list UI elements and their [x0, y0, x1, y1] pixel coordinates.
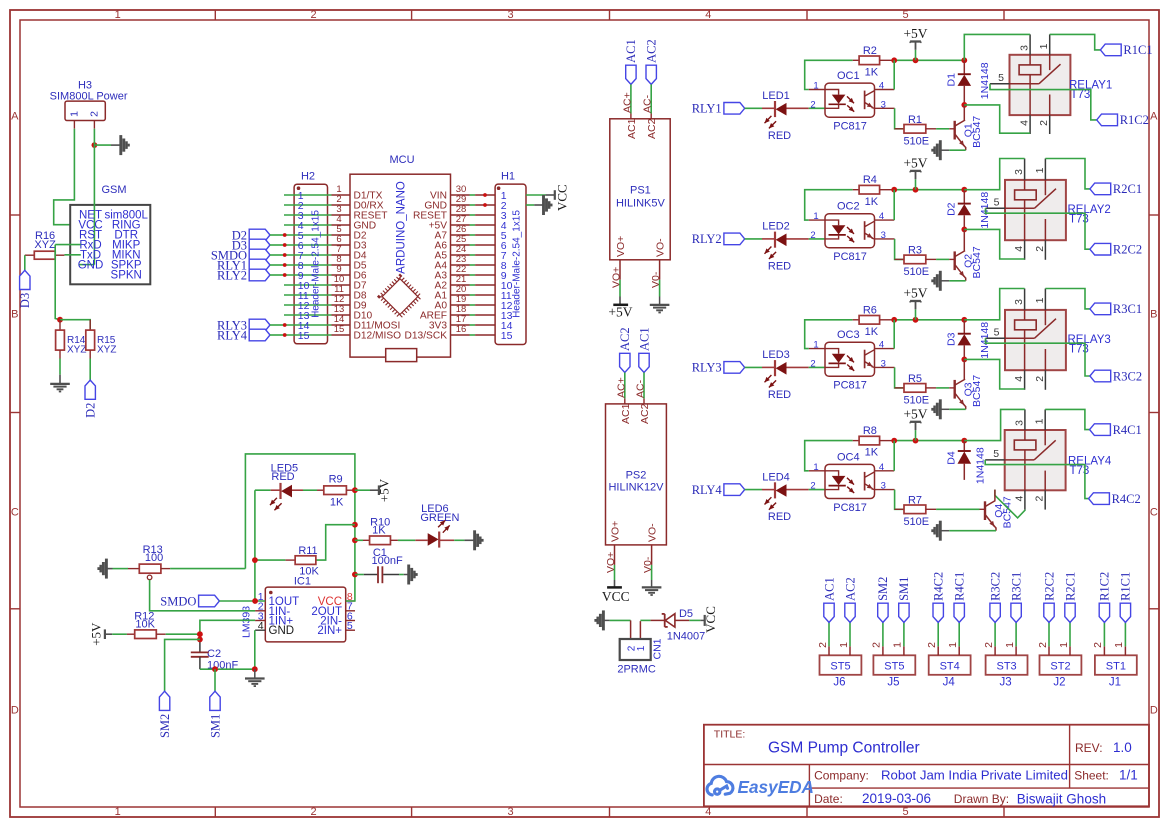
- svg-text:R4C2: R4C2: [1112, 492, 1141, 506]
- svg-text:R6: R6: [863, 304, 877, 316]
- svg-text:ST5: ST5: [830, 660, 850, 672]
- svg-text:3: 3: [1013, 299, 1025, 305]
- svg-text:A: A: [11, 111, 19, 123]
- H1 pin 2: [475, 204, 495, 206]
- net flag R2C2: [1044, 603, 1054, 622]
- J5 pin 2: [882, 646, 884, 655]
- junction IC1 GND: [252, 666, 258, 672]
- svg-text:Drawn By:: Drawn By:: [954, 792, 1009, 806]
- wire MCU to H1 row 9: [470, 274, 476, 276]
- svg-text:OC4: OC4: [837, 451, 860, 463]
- wire R1 to Q1 base: [936, 128, 949, 130]
- svg-text:R3C2: R3C2: [1113, 369, 1142, 383]
- wire H2 row 13 to MCU: [284, 314, 332, 316]
- svg-text:Sheet:: Sheet:: [1074, 768, 1109, 782]
- H3 pin 2: [93, 121, 95, 129]
- capacitor C1: [355, 574, 364, 576]
- MCU pin 28 RESET: [451, 214, 470, 216]
- svg-text:SM2: SM2: [876, 577, 890, 601]
- svg-text:R7: R7: [908, 495, 922, 507]
- wire relay pin1 to flag: [1045, 409, 1089, 429]
- wire H2 row 4 to MCU: [284, 224, 332, 226]
- H1 pin 1: [475, 194, 495, 196]
- svg-text:PC817: PC817: [833, 121, 867, 133]
- svg-text:1/1: 1/1: [1119, 767, 1138, 782]
- relay internal switch: [1005, 207, 1034, 209]
- wire J3 pin 1: [1015, 622, 1017, 646]
- MCU pin 23 A4: [451, 264, 470, 266]
- MCU pin 10 D7: [332, 284, 351, 286]
- OC internal LED: [825, 471, 839, 476]
- svg-text:RLY4: RLY4: [692, 483, 723, 497]
- svg-text:PC817: PC817: [833, 502, 867, 514]
- ground at Q2 emitter: [939, 271, 942, 291]
- PS2 pin stubs top: [624, 399, 626, 404]
- svg-text:2IN+: 2IN+: [317, 625, 342, 637]
- wire IC1 GND down: [254, 630, 256, 669]
- wire MCU to H1 row 1: [470, 194, 476, 196]
- svg-text:OC2: OC2: [837, 201, 860, 213]
- svg-text:AC-: AC-: [642, 94, 654, 113]
- svg-text:T73: T73: [1070, 465, 1090, 477]
- junction diode D2: [961, 187, 967, 193]
- H1 pin 6: [475, 244, 495, 246]
- header H3: [65, 101, 105, 120]
- wire to relay pin4: [964, 229, 1024, 259]
- MCU pin 29 GND: [451, 204, 470, 206]
- relay pin 4: [1024, 490, 1026, 509]
- svg-text:RED: RED: [768, 511, 791, 523]
- wire J4 pin 2: [937, 622, 939, 646]
- title block row dividers: [704, 764, 1149, 766]
- wire OC pin1 up to resistor R4: [805, 190, 853, 220]
- net flag SMDO at H2 pin 7: [249, 249, 270, 261]
- junction R14 top: [57, 317, 63, 323]
- LED5: [255, 489, 271, 491]
- top wire from R13 over to vertical rail: [245, 454, 355, 601]
- ground left of R13: [105, 559, 108, 579]
- wire rail to relay pin3: [964, 34, 1030, 60]
- wire J5 pin 1: [903, 622, 905, 646]
- wire H1 pin1 to VCC: [526, 194, 546, 196]
- relay RELAY2 box: [1005, 180, 1066, 240]
- svg-text:V0-: V0-: [642, 556, 654, 573]
- OC internal LED: [825, 349, 839, 354]
- net flag RLY3: [724, 362, 745, 374]
- OC pin 3 stub: [875, 489, 895, 491]
- MCU pin 14 D11/MOSI: [332, 324, 351, 326]
- svg-text:REV:: REV:: [1075, 741, 1103, 755]
- svg-text:VCC: VCC: [703, 606, 718, 633]
- wire 1IN+ branch: [200, 620, 255, 639]
- svg-text:OC3: OC3: [837, 329, 860, 341]
- wire J2 pin 1: [1069, 622, 1071, 646]
- relay internal coil lines: [1029, 55, 1031, 65]
- wire MCU to H1 row 8: [470, 264, 476, 266]
- MCU pin 18 AREF: [451, 314, 470, 316]
- svg-text:J5: J5: [887, 676, 899, 688]
- svg-text:AC2: AC2: [639, 403, 651, 424]
- svg-text:R3: R3: [908, 245, 922, 257]
- svg-text:1: 1: [115, 806, 121, 818]
- svg-text:H1: H1: [501, 171, 515, 183]
- MCU chip glyph: [380, 277, 420, 317]
- H1 pin 11: [475, 294, 495, 296]
- wire rail down to OC pin4: [893, 320, 895, 349]
- svg-text:R1C1: R1C1: [1119, 572, 1133, 601]
- svg-text:C: C: [11, 507, 19, 519]
- svg-text:PS1: PS1: [630, 185, 651, 197]
- +5V power symbol channel 2: [915, 179, 917, 190]
- net flag R4C2: [933, 603, 943, 622]
- junction diode D3: [961, 317, 967, 323]
- wire H2 row 7 to MCU: [284, 254, 332, 256]
- H1 pin 5: [475, 234, 495, 236]
- svg-text:R1C2: R1C2: [1120, 113, 1149, 127]
- svg-text:1: 1: [1038, 43, 1050, 49]
- svg-text:B: B: [11, 309, 18, 321]
- svg-text:R2C1: R2C1: [1063, 572, 1077, 601]
- resistor R4 1K: [853, 189, 859, 191]
- wire OC pin3 down to resistor R1: [895, 108, 904, 129]
- svg-text:4: 4: [1013, 246, 1025, 252]
- J3 pin 1: [1015, 646, 1017, 655]
- +5V power symbol channel 1: [915, 50, 917, 61]
- svg-text:LED3: LED3: [762, 349, 790, 361]
- svg-text:RED: RED: [768, 260, 791, 272]
- svg-text:+5V: +5V: [376, 478, 391, 502]
- svg-text:ST3: ST3: [997, 660, 1017, 672]
- resistor R7 510E: [895, 508, 904, 510]
- wire relay pin5 to flag: [986, 338, 1090, 376]
- svg-text:J2: J2: [1053, 676, 1065, 688]
- svg-text:510E: 510E: [903, 266, 929, 278]
- J6 pin 2: [828, 646, 830, 655]
- junction R6 right: [891, 317, 897, 323]
- svg-text:J1: J1: [1109, 676, 1121, 688]
- relay internal switch: [1005, 459, 1034, 461]
- svg-text:+5V: +5V: [903, 26, 927, 41]
- junction diode D4: [961, 438, 967, 444]
- net flag R3C1: [1090, 303, 1111, 315]
- svg-text:J6: J6: [833, 676, 845, 688]
- CN1 connector box: [620, 639, 651, 660]
- net flag D2 at H2 pin 5: [249, 229, 270, 241]
- CN1 pin1: [639, 621, 641, 639]
- svg-text:R3C1: R3C1: [1113, 302, 1142, 316]
- svg-text:D2: D2: [945, 202, 957, 216]
- svg-text:R2C1: R2C1: [1113, 182, 1142, 196]
- MCU pin 3 RESET: [332, 214, 351, 216]
- wire relay pin5 to flag: [986, 208, 1090, 249]
- svg-text:AC1: AC1: [624, 39, 638, 63]
- H1 pin 12: [475, 304, 495, 306]
- IC1 pin stub 2: [255, 610, 265, 612]
- svg-text:RED: RED: [768, 130, 791, 142]
- wire H2 row 9 to MCU: [284, 274, 332, 276]
- resistor R16: [25, 254, 35, 256]
- wire H2 row 3 to MCU: [284, 214, 332, 216]
- svg-text:ST5: ST5: [884, 660, 904, 672]
- svg-text:1: 1: [1034, 167, 1046, 173]
- svg-text:5: 5: [902, 806, 908, 818]
- svg-text:J4: J4: [943, 676, 956, 688]
- svg-text:ST2: ST2: [1050, 660, 1070, 672]
- wire PS2 VO+ down to VCC: [614, 565, 616, 580]
- svg-text:3: 3: [1013, 169, 1025, 175]
- wire rail to relay pin3: [964, 409, 1025, 440]
- resistor R11: [285, 559, 295, 561]
- IC1 pin stub 8: [346, 600, 355, 602]
- H1 pin1 marker: [497, 186, 501, 190]
- junction H2 pin 8: [283, 263, 287, 267]
- OC pin 1 stub: [809, 470, 825, 472]
- svg-text:AC2: AC2: [646, 118, 658, 139]
- earth ground below IC1: [245, 677, 265, 679]
- ground at Q3 emitter: [939, 399, 942, 419]
- relay internal switch: [1010, 83, 1039, 85]
- wire LED to OC pin2: [809, 107, 825, 109]
- net flag RLY3 at H2 pin 14: [249, 319, 270, 331]
- svg-text:510E: 510E: [903, 394, 929, 406]
- net flag D3: [20, 270, 30, 289]
- vertical LED5 rail: [255, 490, 265, 601]
- svg-text:1: 1: [69, 111, 81, 117]
- svg-text:SM2: SM2: [158, 714, 172, 738]
- svg-text:ST4: ST4: [940, 660, 960, 672]
- OC pin 4 stub: [875, 348, 895, 350]
- svg-text:AC2: AC2: [645, 39, 659, 63]
- junction +5V stem: [913, 438, 919, 444]
- wire rail down to OC pin4: [893, 441, 895, 471]
- wire rail down to OC pin4: [893, 190, 895, 220]
- svg-text:R5: R5: [908, 373, 922, 385]
- net flag AC2: [845, 603, 855, 622]
- ground right of C1: [407, 565, 410, 585]
- svg-text:R1: R1: [908, 114, 922, 126]
- wire AC1 to PS2: [643, 373, 645, 399]
- svg-text:1K: 1K: [865, 447, 879, 459]
- net flag R1C1: [1120, 603, 1130, 622]
- OC internal LED: [825, 220, 839, 225]
- svg-text:1: 1: [1034, 418, 1046, 424]
- svg-text:T73: T73: [1069, 214, 1089, 226]
- svg-text:RED: RED: [768, 389, 791, 401]
- H1 pin 9: [475, 274, 495, 276]
- PS2 HILINK12V box: [606, 404, 667, 545]
- net flag SMDO: [199, 595, 220, 607]
- wire MCU to H1 row 4: [470, 224, 476, 226]
- svg-text:D2: D2: [84, 403, 98, 418]
- svg-text:SMDO: SMDO: [160, 594, 196, 608]
- wire MCU to H1 row 14: [470, 324, 476, 326]
- svg-text:2: 2: [810, 99, 815, 110]
- net flag SM2: [878, 603, 888, 622]
- relay pin 1: [1044, 289, 1046, 310]
- wire MCU to H1 row 15: [470, 334, 476, 336]
- svg-text:ARDUINO_NANO: ARDUINO_NANO: [396, 181, 408, 274]
- diode D4 1N4148: [963, 441, 965, 451]
- svg-text:D: D: [1150, 705, 1158, 717]
- net flag R4C2: [1089, 493, 1110, 505]
- wire LED to OC pin2: [809, 366, 825, 368]
- wire H2 row 2 to MCU: [284, 204, 332, 206]
- svg-text:AC1: AC1: [637, 327, 651, 351]
- LED LED1: [745, 107, 762, 109]
- svg-text:BC547: BC547: [971, 116, 983, 148]
- net flag R4C1: [954, 603, 964, 622]
- junction R2 right: [891, 57, 897, 63]
- PS1 pin stubs top: [630, 114, 632, 119]
- svg-text:R1C1: R1C1: [1123, 43, 1152, 57]
- wire H2 row 5 to MCU: [284, 234, 332, 236]
- OC emission arrows: [847, 227, 854, 234]
- svg-text:RLY2: RLY2: [217, 268, 247, 282]
- svg-text:R3C2: R3C2: [988, 572, 1002, 601]
- H1 pin 4: [475, 224, 495, 226]
- IC1 pin stub 3: [255, 620, 265, 622]
- svg-text:R2C2: R2C2: [1042, 572, 1056, 601]
- relay internal switch: [1005, 337, 1034, 339]
- title block outline: [704, 725, 1149, 807]
- junction IC1 pin1: [252, 598, 258, 604]
- svg-text:15: 15: [501, 330, 513, 342]
- svg-text:AC1: AC1: [822, 577, 836, 601]
- relay coil: [1015, 320, 1037, 330]
- wire to SM2: [165, 639, 200, 691]
- wire RxD node down to R14 R15: [55, 245, 60, 320]
- MCU pin 6 D3: [332, 244, 351, 246]
- net flag AC1: [824, 603, 834, 622]
- junction H1 pin2 wire: [483, 203, 487, 207]
- svg-text:2: 2: [310, 806, 316, 818]
- svg-text:4: 4: [1019, 120, 1031, 126]
- relay pin 2: [1044, 490, 1046, 509]
- relay coil: [1015, 190, 1037, 200]
- wire R16 left to flag D3: [24, 255, 26, 270]
- LED6: [415, 539, 427, 541]
- MCU pin 9 D6: [332, 274, 351, 276]
- wire MCU to H1 row 3: [470, 214, 476, 216]
- wire H2 row 6 to MCU: [284, 244, 332, 246]
- svg-text:C2: C2: [207, 648, 221, 660]
- wire GND pin strike: [79, 264, 94, 266]
- optocoupler OC1 PC817 box: [825, 83, 875, 117]
- wire PS2 VO- down: [651, 565, 653, 580]
- svg-text:RLY2: RLY2: [692, 232, 722, 246]
- relay pin 2: [1044, 240, 1046, 260]
- VCC power symbol at H1: [554, 190, 556, 200]
- connector J4 box: [929, 655, 971, 675]
- junction R11 branch: [352, 522, 358, 528]
- MCU pin 12 D9: [332, 304, 351, 306]
- svg-text:1.0: 1.0: [1113, 740, 1132, 755]
- svg-text:1: 1: [636, 645, 647, 651]
- OC pin 3 stub: [875, 238, 895, 240]
- MCU pin 1 D1/TX: [332, 194, 351, 196]
- wire H1 pin2 to ground: [526, 204, 534, 206]
- svg-text:GREEN: GREEN: [420, 512, 459, 524]
- OC emission arrows: [847, 356, 854, 363]
- wire rail down to OC pin4: [893, 60, 895, 89]
- R13 wiper: [147, 575, 152, 580]
- OC internal phototransistor: [864, 221, 866, 240]
- ground at Q1 emitter: [939, 140, 942, 160]
- svg-text:1K: 1K: [372, 525, 386, 537]
- svg-text:TITLE:: TITLE:: [714, 729, 746, 741]
- wire RxD to junction: [55, 244, 81, 246]
- net flag R1C2: [1099, 603, 1109, 622]
- MCU pin 25 A6: [451, 244, 470, 246]
- svg-text:PS2: PS2: [626, 470, 647, 482]
- resistor R2 1K: [853, 59, 859, 61]
- earth ground below PS2: [642, 586, 662, 588]
- wire LED to OC pin2: [809, 238, 825, 240]
- svg-text:1: 1: [1034, 297, 1046, 303]
- wire J3 pin 2: [994, 622, 996, 646]
- relay RELAY4 box: [1005, 430, 1066, 490]
- relay pin 5: [985, 459, 1005, 461]
- earth ground below R14: [50, 383, 70, 385]
- OC pin 4 stub: [875, 219, 895, 221]
- svg-text:VCC: VCC: [555, 184, 570, 211]
- junction R9 right: [352, 487, 358, 493]
- net flag D3 at H2 pin 6: [249, 239, 270, 251]
- LED LED4: [745, 489, 762, 491]
- net flag AC2 above PS2: [620, 353, 630, 372]
- svg-text:2: 2: [810, 230, 815, 241]
- OC emission arrows: [847, 478, 854, 485]
- MCU pin 27 +5V: [451, 224, 470, 226]
- wire collector riser: [963, 359, 965, 379]
- wire relay pin1 to flag: [1045, 289, 1090, 309]
- svg-text:Biswajit Ghosh: Biswajit Ghosh: [1017, 791, 1106, 806]
- relay internal coil lines: [1024, 310, 1026, 320]
- svg-text:AC1: AC1: [626, 118, 638, 139]
- wire rail to relay pin3: [964, 289, 1024, 320]
- svg-text:3: 3: [1019, 45, 1031, 51]
- svg-text:1K: 1K: [865, 196, 879, 208]
- MCU pin 11 D8: [332, 294, 351, 296]
- MCU pin 24 A5: [451, 254, 470, 256]
- svg-text:GSM: GSM: [101, 184, 126, 196]
- junction Q1 collector: [961, 102, 967, 108]
- svg-text:5: 5: [994, 326, 1000, 338]
- +5V symbol right of R9: [378, 485, 380, 495]
- VCC power symbol right of D5: [704, 615, 706, 626]
- svg-text:5: 5: [993, 448, 999, 460]
- junction H2 pin 9: [283, 273, 287, 277]
- junction H2 pin 5: [283, 233, 287, 237]
- svg-text:R1C2: R1C2: [1098, 572, 1112, 601]
- svg-text:1: 1: [1058, 642, 1070, 648]
- wire MCU to H1 row 6: [470, 244, 476, 246]
- resistor R12: [127, 633, 135, 635]
- svg-text:J3: J3: [1000, 676, 1012, 688]
- resistor R6 1K: [853, 319, 859, 321]
- wire emitter to ground: [949, 149, 966, 151]
- wire junction to earth ground: [254, 669, 256, 678]
- +5V power symbol channel 4: [915, 430, 917, 441]
- svg-text:1N4148: 1N4148: [979, 62, 991, 99]
- wire J5 pin 2: [882, 622, 884, 646]
- MCU pin 2 D0/RX: [332, 204, 351, 206]
- net flag RLY1 at H2 pin 8: [249, 259, 270, 271]
- H1 pin 13: [475, 314, 495, 316]
- svg-text:B: B: [1150, 309, 1157, 321]
- svg-text:LED2: LED2: [762, 221, 790, 233]
- wire MCU to H1 row 7: [470, 254, 476, 256]
